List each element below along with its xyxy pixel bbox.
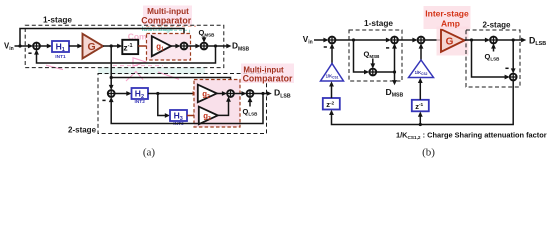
ghost red dashes on box top bbox=[146, 25, 196, 27]
adder P6 bbox=[510, 74, 517, 81]
node DLSB feedback tap bbox=[261, 92, 264, 95]
minus at adder P1 bbox=[324, 46, 327, 48]
attenuator 1/Kcs1 bbox=[321, 64, 344, 82]
wire H2 to g2 (red arrow) bbox=[148, 91, 198, 96]
wire H3 to g3 (red arrow) bbox=[187, 113, 199, 118]
wire feedback stage2 bbox=[109, 94, 263, 124]
ghost teal dashed box bbox=[144, 30, 190, 58]
label 2-stage (b) bbox=[482, 21, 511, 30]
svg-text:(a): (a) bbox=[143, 147, 156, 159]
label Multi-input Comparator (stage2) bbox=[243, 65, 293, 83]
ghost pink mark 2 bbox=[126, 72, 143, 82]
node P3 output bbox=[393, 70, 396, 73]
label Vin (b) bbox=[303, 35, 313, 46]
minus at adder P2 bbox=[386, 47, 389, 49]
label pink background inter-stage amp bbox=[424, 6, 471, 29]
label INT1 bbox=[55, 54, 66, 60]
ghost pink diagonal 1 bbox=[46, 65, 63, 69]
svg-text:(b): (b) bbox=[422, 147, 435, 159]
wire G to 2-stage box bbox=[465, 38, 491, 43]
wire main through 1-stage box bbox=[354, 38, 392, 43]
label DLSB (b) bbox=[529, 36, 546, 48]
label Vin (a) bbox=[4, 41, 14, 52]
ghost teal band bbox=[98, 67, 205, 74]
adder S1 bbox=[33, 43, 40, 50]
svg-text:Inter-stage: Inter-stage bbox=[425, 8, 469, 18]
adder P5 bbox=[490, 37, 497, 44]
svg-text:G: G bbox=[446, 37, 454, 48]
minus at adder S2 bbox=[102, 99, 105, 101]
adder A2 bbox=[201, 43, 208, 50]
box 1-stage (a) bbox=[25, 25, 224, 67]
block z-1 (a) bbox=[122, 40, 138, 54]
label QMSB (b) bbox=[364, 50, 381, 60]
caption (a) bbox=[143, 147, 156, 159]
note charge sharing bbox=[396, 131, 547, 141]
svg-text:1-stage: 1-stage bbox=[364, 18, 393, 28]
wire g1 to adder A1 bbox=[171, 44, 181, 49]
wire z-2 to K1 bbox=[329, 81, 334, 98]
node DMSB feedback tap bbox=[214, 44, 217, 47]
wire feedback stage1 bbox=[34, 46, 215, 63]
comparator dashed box stage2 bbox=[194, 80, 240, 128]
wire QLSB to P5 bbox=[491, 43, 496, 51]
svg-text:INT1: INT1 bbox=[55, 54, 66, 60]
adder S2 bbox=[108, 90, 115, 97]
wire P5 to DLSB bbox=[497, 38, 526, 43]
svg-text:Amp: Amp bbox=[441, 19, 460, 29]
amp G (a) bbox=[83, 34, 104, 59]
ghost pink dashed line bbox=[113, 65, 163, 67]
block H1 bbox=[52, 41, 69, 53]
wire A1 to A2 bbox=[187, 44, 200, 49]
label DMSB (b) bbox=[386, 87, 404, 99]
adder A1 bbox=[181, 43, 188, 50]
label pink background stage1 comparator bbox=[143, 6, 192, 26]
node feedforward tap bbox=[18, 44, 21, 47]
wire S1 to H1 bbox=[40, 44, 52, 49]
label Inter-stage Amp bbox=[425, 8, 469, 28]
minus at adder P6 bbox=[505, 67, 508, 69]
label INT3 bbox=[173, 121, 184, 127]
minus at adder S1 bbox=[28, 52, 31, 54]
svg-text:INT2: INT2 bbox=[134, 99, 145, 105]
wire A2 to DMSB bbox=[207, 44, 231, 49]
wire bottom up into z-1 bbox=[418, 112, 423, 125]
node branch in 2-stage box bbox=[470, 38, 473, 41]
adder P1 bbox=[329, 37, 336, 44]
ghost pink text Comparator bbox=[128, 31, 177, 41]
wire G to z-1 bbox=[103, 44, 122, 49]
wire tap stage1 to stage2 adder bbox=[109, 46, 114, 90]
svg-text:G: G bbox=[88, 41, 96, 53]
pink glow behind G bbox=[437, 27, 469, 56]
label Multi-input Comparator (stage1) bbox=[141, 7, 191, 25]
svg-text:Comparator: Comparator bbox=[243, 74, 293, 84]
wire P2 to P4 bbox=[398, 38, 418, 43]
label QLSB (b) bbox=[485, 52, 501, 62]
label QMSB (a) bbox=[199, 28, 216, 38]
label 1-stage (b) bbox=[364, 18, 393, 28]
wire branch to P6 left bbox=[472, 40, 510, 79]
wire junction down to H3 bbox=[158, 94, 170, 118]
adder B1 (stage2 sum) bbox=[227, 90, 234, 97]
block H3 bbox=[170, 110, 187, 122]
attenuator 1/Kcs2 bbox=[409, 60, 434, 78]
node after G bbox=[110, 44, 113, 47]
block z-2 bbox=[323, 98, 340, 110]
wire z-1 to g1 (red arrow) bbox=[138, 44, 152, 49]
wire QMSB to P3 bbox=[370, 59, 375, 69]
box 1-stage (b) bbox=[349, 30, 402, 81]
adder B2 (QLSB sum) bbox=[247, 90, 254, 97]
wire Vin to adder S1 bbox=[15, 44, 34, 49]
block H2 bbox=[132, 88, 149, 100]
wire Vin to adder P1 bbox=[314, 38, 329, 43]
wire g2 to adder B1 bbox=[217, 91, 227, 96]
wire S2 to H2 bbox=[115, 91, 132, 96]
adder P4 bbox=[418, 37, 425, 44]
wire node down to P6 bbox=[511, 40, 516, 74]
label pink background stage2 comparator bbox=[241, 64, 294, 84]
wire K1 apex to P1 bbox=[330, 43, 335, 63]
label 2-stage (a) bbox=[68, 126, 97, 135]
svg-text:1/KCS1: 1/KCS1 bbox=[326, 74, 339, 80]
svg-text:1/KCS2: 1/KCS2 bbox=[415, 70, 428, 76]
wire comparator feed to adder B1 top bbox=[111, 78, 233, 91]
amp G inter-stage (b) bbox=[441, 29, 465, 52]
wire P1 to 1-stage box bbox=[335, 39, 353, 41]
svg-text:2-stage: 2-stage bbox=[482, 21, 511, 30]
svg-text:Comparator: Comparator bbox=[141, 15, 191, 25]
block z-1 (b) bbox=[412, 100, 429, 112]
comparator gain g2 bbox=[198, 85, 217, 103]
wire K2 apex to P4 bbox=[419, 43, 424, 60]
wire QLSB to B2 bbox=[248, 97, 253, 107]
node branch in 1-stage box bbox=[352, 38, 355, 41]
wire B1 to B2 bbox=[234, 91, 247, 96]
wire B2 to DLSB bbox=[253, 91, 271, 96]
wire P4 to G bbox=[424, 39, 441, 41]
wire P6 down to bottom feedback and into z-2 bbox=[329, 80, 513, 124]
comparator dashed box stage1 bbox=[147, 34, 191, 61]
caption (b) bbox=[422, 147, 435, 159]
wire H1 to G bbox=[69, 44, 83, 49]
svg-text:2-stage: 2-stage bbox=[68, 126, 97, 135]
node after H2 bbox=[156, 92, 159, 95]
wire QMSB to A2 bbox=[202, 37, 207, 43]
label QLSB (a) bbox=[243, 107, 259, 117]
wire branch down to P3 bbox=[354, 40, 370, 74]
comparator gain g1 bbox=[152, 36, 171, 56]
ghost pink diagonal 3 bbox=[158, 72, 179, 79]
label DMSB (a) bbox=[232, 41, 250, 53]
ghost teal text Inter-stage bbox=[142, 26, 174, 33]
node DLSB feedback tap bbox=[512, 38, 515, 41]
node bottom wire to z-1 bbox=[419, 123, 422, 126]
label INT2 bbox=[134, 99, 145, 105]
wire node down to DMSB bbox=[392, 72, 397, 85]
wire node up to P2 bottom bbox=[392, 43, 397, 72]
wire P3 to node bbox=[376, 71, 394, 73]
box 2-stage (a) bbox=[98, 74, 267, 134]
comparator gain g3 bbox=[199, 107, 218, 125]
label 1-stage (a) bbox=[43, 14, 72, 24]
box 2-stage (b) bbox=[466, 30, 520, 87]
node comparator feed tap bbox=[110, 76, 113, 79]
adder P3 bbox=[369, 69, 376, 76]
wire z-1 to K2 bbox=[418, 78, 423, 100]
adder P2 bbox=[391, 37, 398, 44]
wire feedforward top bbox=[20, 29, 186, 47]
svg-text:1-stage: 1-stage bbox=[43, 14, 72, 24]
wire g3 to adder B1 bottom bbox=[218, 97, 231, 116]
label DLSB (a) bbox=[274, 88, 291, 100]
ghost pink triangle bbox=[133, 58, 146, 66]
